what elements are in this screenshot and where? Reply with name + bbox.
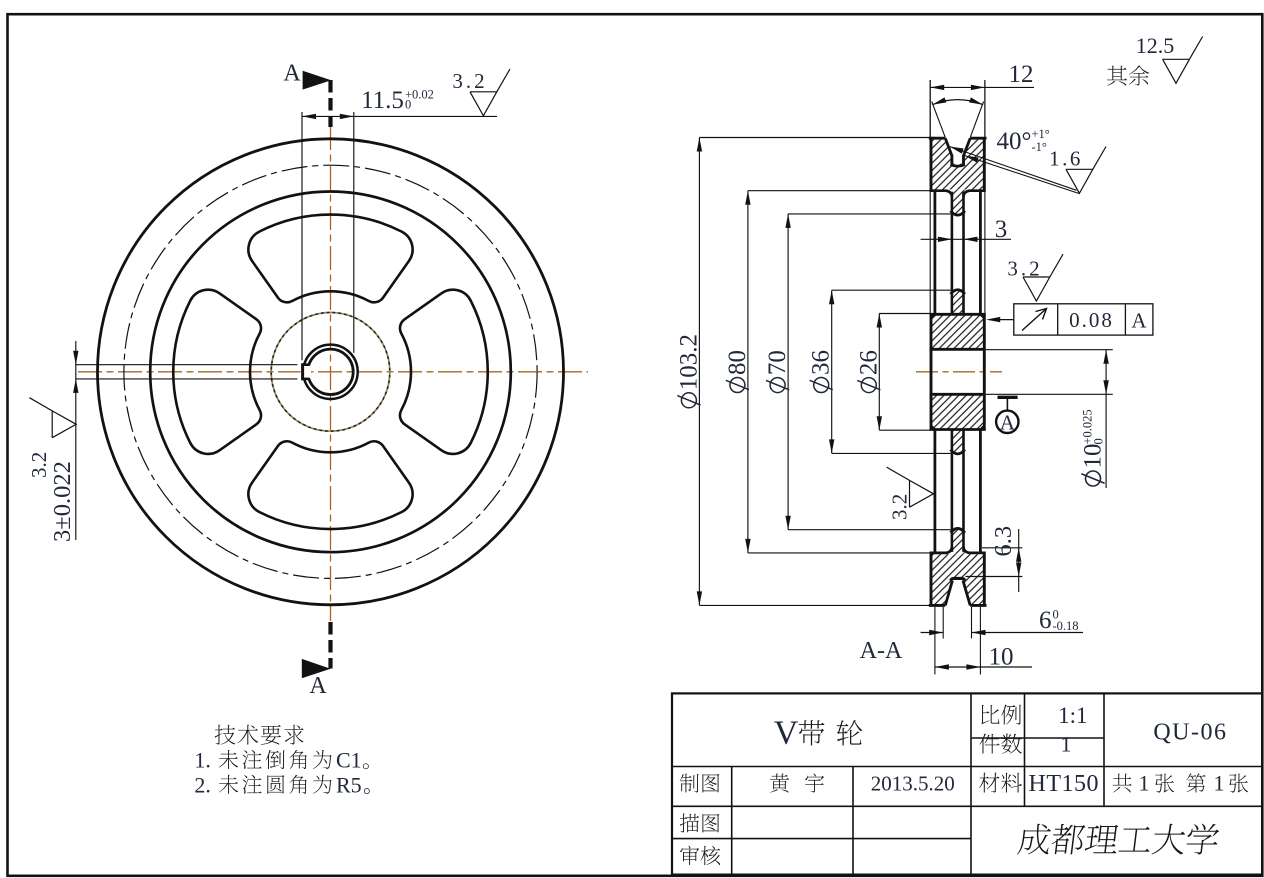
centerline vertical / section cut line A-A — [330, 126, 332, 621]
svg-text:26: 26 — [855, 350, 882, 375]
technical requirements notes — [215, 725, 304, 745]
svg-text:3.2: 3.2 — [888, 494, 912, 520]
cell miaotu (traced) — [680, 814, 720, 833]
svg-text:10: 10 — [989, 644, 1014, 671]
svg-text:6: 6 — [1039, 607, 1052, 634]
svg-text:A: A — [283, 61, 301, 87]
svg-text:12.5: 12.5 — [1136, 33, 1175, 58]
hatching rim top block — [931, 140, 984, 190]
section arrow A bottom — [302, 622, 331, 678]
cell qty 1 — [1061, 732, 1072, 757]
svg-text:0.08: 0.08 — [1069, 308, 1114, 332]
label A top — [283, 61, 301, 87]
general roughness 12.5 (qi yu) — [1107, 33, 1203, 86]
cell HT150 — [1029, 771, 1100, 797]
bore chamfer circle — [303, 345, 357, 399]
svg-text:11.5: 11.5 — [361, 87, 404, 114]
svg-text:70: 70 — [764, 350, 791, 375]
cell QU-06 — [1153, 720, 1227, 746]
hatching rim bottom block — [931, 554, 984, 604]
label A-A — [860, 638, 903, 664]
svg-text:36: 36 — [808, 350, 835, 375]
dimension phi26 — [855, 314, 882, 431]
svg-text:C1: C1 — [336, 748, 362, 773]
svg-text:3.2: 3.2 — [452, 69, 487, 93]
roughness 1.6 — [1049, 147, 1106, 194]
hatching web tongue top — [951, 190, 965, 214]
leader arrow frame to rim — [986, 317, 1014, 322]
hub corner chamfers — [931, 314, 984, 429]
kidney lightening hole 2 — [248, 441, 412, 529]
roughness 3.2 lower-left of section — [887, 467, 934, 520]
cell sheets — [1113, 771, 1249, 796]
rim inner circle phi80 — [150, 191, 511, 552]
svg-text:A-A: A-A — [860, 638, 903, 664]
section web side lines through holes — [952, 192, 964, 552]
svg-text:10: 10 — [1080, 444, 1107, 469]
svg-text:+1°: +1° — [1032, 127, 1050, 141]
extension lines for diameter dims — [699, 138, 950, 606]
hatching hub upper — [931, 314, 984, 348]
svg-text:40°: 40° — [997, 128, 1032, 155]
dimension phi103.2 — [675, 138, 702, 606]
hatching web strip top — [951, 290, 965, 315]
keyway slot — [301, 363, 311, 380]
kidney lightening hole 4 — [248, 215, 412, 303]
title block grid — [672, 693, 1262, 874]
pitch circle phi92 dash-dot — [124, 165, 537, 578]
cell 1:1 — [1058, 703, 1087, 728]
svg-text:2013.5.20: 2013.5.20 — [871, 772, 955, 796]
hatching web tongue bottom — [951, 530, 965, 554]
dimension phi70 — [764, 214, 791, 530]
svg-text:3.2: 3.2 — [1007, 257, 1042, 281]
angular dimension 40 degrees — [932, 97, 1050, 155]
svg-text:QU-06: QU-06 — [1153, 720, 1227, 746]
section web tongue cap top — [951, 211, 965, 215]
svg-text:6.3: 6.3 — [990, 526, 1017, 557]
section rim bottom block with V-groove — [929, 547, 987, 606]
svg-text:3±0.022: 3±0.022 — [49, 461, 76, 542]
svg-text:3.2: 3.2 — [27, 452, 51, 478]
thin projection lines outer — [930, 80, 985, 314]
hatching web strip bottom — [951, 430, 965, 455]
cell jianshu (qty) — [979, 734, 1021, 754]
section hub block — [930, 314, 986, 429]
svg-text:0: 0 — [1092, 438, 1106, 444]
roughness 3.2 on 11.5 dim — [452, 69, 510, 116]
dimension 3 ±0.022 (keyway width) — [49, 341, 297, 542]
svg-text:1: 1 — [1139, 771, 1150, 796]
school: Chengdu University of Technology — [1017, 824, 1220, 855]
svg-text:1.6: 1.6 — [1049, 147, 1083, 171]
svg-text:1.: 1. — [194, 748, 211, 773]
centerline horizontal (front view) — [78, 371, 588, 373]
kidney lightening hole 3 — [173, 290, 261, 454]
cell cailiao (material) — [979, 773, 1022, 793]
label A bottom — [309, 673, 327, 699]
roughness 3.2 mid-right — [1007, 254, 1063, 301]
dimension 6 0/-0.18 (groove mouth width) — [921, 607, 1083, 639]
dimension 11.5 +0.02/0 (keyway depth) — [302, 87, 497, 360]
svg-text:1: 1 — [1061, 732, 1072, 757]
svg-text:1:1: 1:1 — [1058, 703, 1087, 728]
hub circle phi26 dashed tan/black — [271, 313, 390, 432]
svg-text:A: A — [309, 673, 327, 699]
dimension phi10 +0.025/0 (bore) — [986, 350, 1113, 488]
svg-text:HT150: HT150 — [1029, 771, 1100, 797]
dimension phi36 — [808, 290, 835, 453]
svg-text:2.: 2. — [194, 772, 211, 797]
dimension 10 (hub width) — [935, 607, 1032, 675]
datum symbol A — [996, 397, 1018, 434]
dimension 3 (groove bottom width) — [921, 216, 1011, 243]
svg-text:A: A — [1000, 411, 1016, 435]
cell zhitu (drawn by) — [680, 774, 720, 793]
section web strip bottom cap — [951, 450, 965, 454]
dimension 6.3 (groove depth below rim) — [966, 526, 1023, 592]
section outline: rim top block with V-groove — [929, 138, 987, 197]
section web strip cap top — [951, 290, 965, 294]
dimension phi80 — [724, 191, 751, 553]
outer circle phi103.2 — [98, 139, 564, 605]
svg-text:0: 0 — [405, 98, 411, 112]
section hub side lines (10mm) — [935, 192, 981, 553]
cell bili (scale) — [981, 705, 1021, 725]
svg-text:V: V — [774, 715, 799, 752]
section arrow A top — [303, 71, 332, 127]
cell date — [871, 772, 955, 796]
svg-text:-1°: -1° — [1032, 140, 1047, 154]
kidney lightening hole 1 — [400, 290, 488, 454]
title: V belt wheel — [774, 715, 863, 752]
roughness 3.2 left (keyway side) — [27, 398, 76, 478]
svg-text:3: 3 — [995, 216, 1008, 243]
svg-text:R5: R5 — [336, 772, 362, 797]
svg-text:A: A — [1131, 309, 1147, 333]
cell name huang yu — [770, 773, 824, 792]
svg-text:80: 80 — [724, 350, 751, 375]
section web tongue bottom cap — [951, 528, 965, 532]
hatching hub lower — [931, 395, 984, 429]
svg-text:12: 12 — [1009, 61, 1034, 88]
bore circle phi10 — [308, 349, 353, 394]
svg-text:103.2: 103.2 — [675, 334, 702, 390]
leaders to groove flanks — [950, 147, 1080, 194]
svg-text:-0.18: -0.18 — [1053, 619, 1079, 633]
section centerline — [916, 371, 1002, 373]
runout tolerance frame 0.08 A — [1014, 304, 1153, 335]
svg-text:1: 1 — [1214, 771, 1225, 796]
dimension 12 (rim width) — [930, 61, 1034, 137]
cell shenhe (checked) — [680, 846, 720, 865]
